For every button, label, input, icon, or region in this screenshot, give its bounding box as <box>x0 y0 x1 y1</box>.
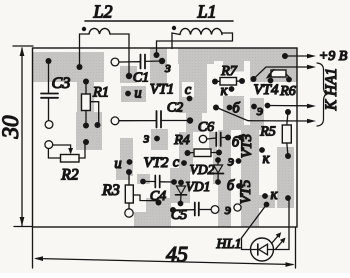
pad dot C5 left <box>170 207 176 213</box>
pad dot HL1 cathode junction <box>285 195 291 201</box>
wire emitter to edge <box>268 105 312 107</box>
pad circle C6 left <box>199 135 206 142</box>
pad dot C2 right <box>187 117 193 123</box>
dimension 30 line <box>21 48 23 226</box>
pad dot VT4 collector <box>229 86 235 92</box>
pad dot VD1 bottom <box>178 201 184 207</box>
copper trace R1 pads / R2 block <box>76 112 102 150</box>
pad circle C2 left <box>111 117 119 125</box>
svg-text:L1: L1 <box>196 2 216 22</box>
copper trace VT1 source blob <box>121 86 146 102</box>
resistor R1 <box>82 82 99 126</box>
svg-text:R1: R1 <box>92 85 109 101</box>
trimmer resistor R6 <box>266 70 289 79</box>
pad dot VT3 base <box>238 135 244 141</box>
pad dot R3 step end <box>156 200 162 206</box>
svg-text:с: с <box>173 155 180 171</box>
capacitor C2 <box>119 111 190 128</box>
svg-text:HL1: HL1 <box>216 237 242 252</box>
pad dot VT2 source <box>127 159 133 165</box>
pad dot C1 right / VT1 gate <box>159 58 165 64</box>
copper trace C2 right blob <box>186 113 202 132</box>
copper trace VT2 gate blob <box>151 129 168 150</box>
pad dot VT1 drain <box>187 96 193 102</box>
pad dot VT2 gate <box>154 136 160 142</box>
pad circle C3 bottom <box>45 121 53 129</box>
svg-text:з: з <box>143 131 150 147</box>
white hole VT1 drain <box>182 82 194 97</box>
pad dot VT4 left <box>251 76 257 82</box>
svg-text:L2: L2 <box>92 2 112 22</box>
copper trace R3 top blob <box>116 166 130 180</box>
pad dot C4 left <box>140 179 146 185</box>
svg-text:К НА1: К НА1 <box>323 68 340 112</box>
capacitor C5 <box>173 203 211 216</box>
copper trace VT1 gate column <box>150 48 167 86</box>
pad dot VT3 collector <box>259 147 265 153</box>
copper trace VT2 source blob <box>120 138 133 176</box>
copper trace VT5 collector blob <box>259 195 275 208</box>
copper trace VD2 column <box>213 150 225 184</box>
copper trace L2 right pad blob <box>120 66 137 83</box>
arrowhead HA1 middle <box>307 104 316 109</box>
copper trace R3 bottom blob <box>134 212 146 227</box>
pad dot R3 top <box>126 169 132 175</box>
dimension 30 arrowhead down <box>20 217 25 226</box>
copper trace R1 column <box>77 80 94 122</box>
svg-text:э: э <box>225 202 231 218</box>
dimension 45 extension left <box>32 227 34 268</box>
svg-text:R7: R7 <box>220 64 238 79</box>
svg-text:э: э <box>257 103 263 119</box>
pad circle R3 bottom <box>125 209 133 217</box>
pad dot R4 left <box>185 150 191 156</box>
copper trace C4 left blob <box>137 174 150 184</box>
svg-text:VT2: VT2 <box>143 155 169 171</box>
diode VD2 <box>213 160 224 182</box>
dimension 45 extension right <box>295 227 297 268</box>
pad dot R7 left <box>212 79 218 85</box>
svg-text:б: б <box>232 101 240 117</box>
svg-text:VD2: VD2 <box>190 162 215 177</box>
pad dot L2 left <box>77 64 83 70</box>
pad circle C1 left <box>111 58 119 66</box>
pad dot C4 right <box>171 179 177 185</box>
copper trace top rail <box>178 48 297 61</box>
svg-text:VD1: VD1 <box>186 179 211 194</box>
pad dot +9V <box>282 53 288 59</box>
capacitor C3 <box>41 61 58 121</box>
svg-text:С2: С2 <box>167 101 183 116</box>
svg-text:к: к <box>221 83 228 99</box>
white hole VT4 label <box>249 82 297 98</box>
pad dot emitter wire <box>265 103 271 109</box>
copper trace R6 zone <box>264 61 297 82</box>
svg-text:С1: С1 <box>133 71 149 86</box>
dimension 45 arrowhead right <box>286 262 295 267</box>
wire C6 diagonal to edge <box>217 108 312 122</box>
svg-text:VT1: VT1 <box>150 82 174 98</box>
svg-text:VT4: VT4 <box>253 82 279 98</box>
board outline <box>33 48 298 227</box>
svg-text:R3: R3 <box>101 182 120 199</box>
copper trace VT4 column <box>250 61 264 130</box>
svg-text:э: э <box>228 154 234 170</box>
svg-text:к: к <box>271 187 278 203</box>
pad dot L1 left <box>154 52 160 58</box>
svg-text:с: с <box>185 82 192 98</box>
svg-text:к: к <box>263 151 270 167</box>
svg-text:R5: R5 <box>259 125 276 140</box>
dimension 30 extension tick top <box>13 45 33 47</box>
copper trace R4 left column <box>179 132 193 172</box>
pad dot R1 top <box>83 79 89 85</box>
brace K HA1 <box>317 63 328 126</box>
pad dot VT2 drain <box>181 160 187 166</box>
pad dot R6 right <box>286 77 292 83</box>
pad dot VT4 base <box>227 105 233 111</box>
arrowhead +9V <box>307 54 316 59</box>
pad dot VT3 emitter <box>236 158 242 164</box>
resistor R3 <box>125 172 158 209</box>
copper trace column right of C6 <box>209 132 217 150</box>
svg-text:С5: С5 <box>171 208 187 223</box>
svg-text:R4: R4 <box>173 133 190 148</box>
wire +9V arrow <box>288 55 311 57</box>
svg-text:з: з <box>164 60 171 76</box>
pad dot VT5 collector <box>262 193 268 199</box>
svg-text:30: 30 <box>0 115 23 140</box>
capacitor C6 <box>207 133 228 147</box>
dimension 45 line <box>36 259 293 265</box>
pad dot VT1 source <box>125 91 131 97</box>
leader line under L1 L2 <box>85 20 233 22</box>
copper trace rail thick part <box>178 48 214 64</box>
pad dot C6 right <box>225 135 231 141</box>
capacitor C1 <box>119 55 162 69</box>
pad dot VD2 top <box>215 157 221 163</box>
wire HL1 left lead to VT5 collector <box>242 205 267 250</box>
diode VD1 <box>176 183 187 204</box>
pad dot R5 top <box>285 109 291 115</box>
copper trace lower-left column VT3/VT5 <box>218 130 231 227</box>
pad dot VT5 base <box>236 183 242 189</box>
dimension 30 arrowhead up <box>20 47 25 56</box>
inductor L1 <box>157 26 233 55</box>
capacitor C4 <box>143 176 174 188</box>
pad circle э right <box>234 204 241 211</box>
resistor R5 <box>282 112 291 156</box>
pad dot R1 bottom left <box>83 123 89 129</box>
pad dot R1 bottom right <box>95 122 101 128</box>
arrowhead HA1 bottom <box>307 119 316 124</box>
light arrow 2 <box>276 240 284 249</box>
inductor L2 <box>80 27 130 76</box>
dimension 45 arrowhead left <box>34 256 43 261</box>
svg-text:и: и <box>114 156 121 172</box>
pad dot VD1 top <box>178 180 184 186</box>
pad dot HL1 anode junction <box>264 202 270 208</box>
pad dot VD2 bottom <box>215 179 221 185</box>
pad dot C3 top <box>46 58 52 64</box>
svg-text:и: и <box>134 86 141 102</box>
arrowhead HA1 top <box>307 65 316 70</box>
pad circle C5 right <box>211 206 219 214</box>
white hole R7 body <box>211 72 245 97</box>
copper trace R5 column <box>277 147 294 208</box>
dimension 30 extension tick bottom <box>14 226 32 228</box>
svg-text:С3: С3 <box>52 75 71 92</box>
LED HL1 <box>251 238 274 261</box>
wire VT4 to edge arrow <box>254 67 312 79</box>
pad dot R5 bottom <box>285 153 291 159</box>
resistor R7 <box>215 78 242 86</box>
copper trace central column <box>179 58 207 113</box>
pad dot L2 right <box>126 73 132 79</box>
pad dot R7 right <box>239 78 245 84</box>
wire HL1 right lead to pad <box>273 198 289 250</box>
svg-text:+9 В: +9 В <box>319 49 348 64</box>
pad circle R2 left <box>45 141 53 149</box>
pad dot R6 wiper <box>268 78 274 84</box>
copper trace VD1 column <box>170 168 190 203</box>
copper trace bottom block C5 <box>146 198 171 227</box>
pad dot R4 right <box>216 150 222 156</box>
light arrow 1 <box>272 234 280 243</box>
pad dot diagonal origin <box>213 105 219 111</box>
svg-text:R2: R2 <box>60 167 78 184</box>
resistor R4 <box>188 149 220 157</box>
svg-text:С6: С6 <box>198 120 214 135</box>
svg-text:б: б <box>227 178 235 194</box>
pad dot R2 right <box>83 139 89 145</box>
copper trace VT3/VT5 column <box>241 125 259 227</box>
svg-text:45: 45 <box>166 242 188 267</box>
pad dot VT4 emitter <box>251 104 257 110</box>
svg-text:R6: R6 <box>279 84 296 99</box>
copper trace top-left blob <box>33 52 104 82</box>
copper trace R7 column <box>223 61 244 130</box>
trimmer resistor R2 <box>48 144 85 162</box>
